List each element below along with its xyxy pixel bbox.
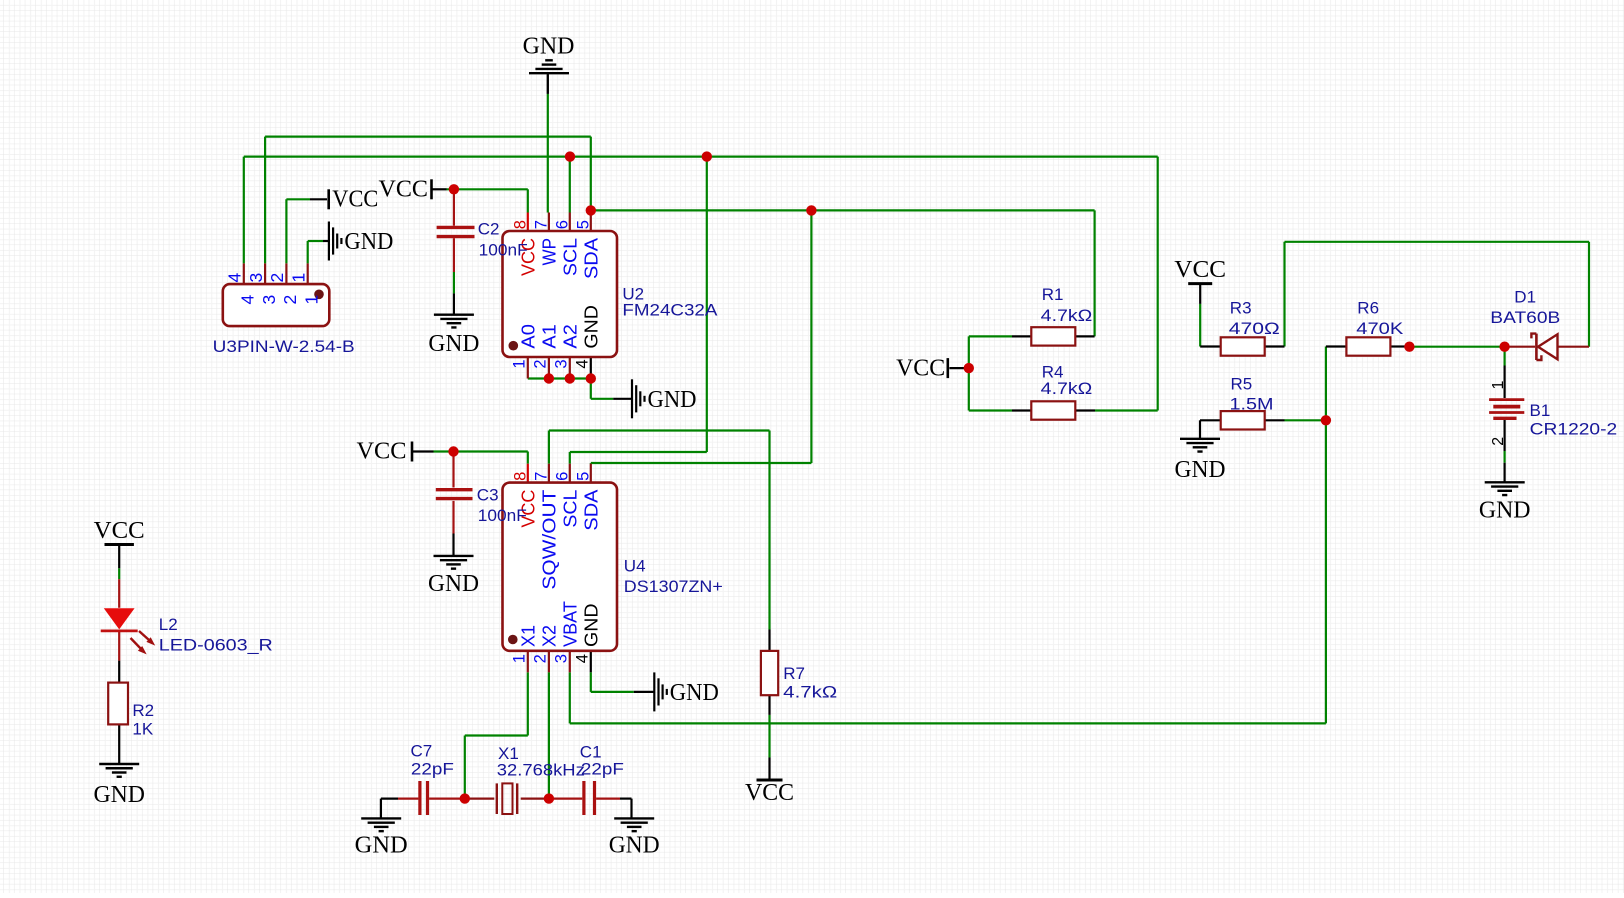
svg-text:X1: X1 bbox=[518, 625, 538, 647]
svg-text:C3: C3 bbox=[477, 486, 499, 505]
svg-text:6: 6 bbox=[553, 472, 571, 481]
svg-text:VCC: VCC bbox=[357, 439, 407, 465]
svg-text:VCC: VCC bbox=[332, 187, 378, 213]
svg-text:7: 7 bbox=[532, 472, 550, 481]
svg-text:1: 1 bbox=[511, 654, 529, 663]
svg-text:2: 2 bbox=[280, 295, 300, 305]
svg-text:R1: R1 bbox=[1042, 285, 1064, 304]
svg-text:VBAT: VBAT bbox=[560, 601, 580, 647]
svg-text:2: 2 bbox=[532, 654, 550, 663]
svg-text:3: 3 bbox=[553, 654, 571, 663]
svg-text:5: 5 bbox=[574, 472, 592, 481]
svg-text:GND: GND bbox=[648, 387, 697, 413]
svg-text:100nF: 100nF bbox=[479, 241, 528, 260]
svg-text:C7: C7 bbox=[411, 742, 433, 761]
svg-text:4: 4 bbox=[574, 654, 592, 663]
svg-text:GND: GND bbox=[581, 305, 601, 349]
svg-text:SDA: SDA bbox=[581, 238, 601, 279]
svg-text:3: 3 bbox=[246, 273, 266, 283]
svg-text:DS1307ZN+: DS1307ZN+ bbox=[624, 577, 723, 596]
svg-text:GND: GND bbox=[428, 571, 479, 597]
svg-text:4: 4 bbox=[238, 295, 258, 305]
svg-text:22pF: 22pF bbox=[581, 760, 624, 779]
svg-text:8: 8 bbox=[511, 220, 529, 229]
svg-text:6: 6 bbox=[553, 220, 571, 229]
svg-text:GND: GND bbox=[670, 680, 719, 706]
svg-text:4.7kΩ: 4.7kΩ bbox=[783, 683, 837, 702]
svg-text:L2: L2 bbox=[159, 615, 178, 634]
svg-text:GND: GND bbox=[523, 34, 575, 60]
svg-text:3: 3 bbox=[553, 359, 571, 368]
svg-text:470Ω: 470Ω bbox=[1229, 319, 1280, 338]
svg-text:R2: R2 bbox=[132, 701, 154, 720]
svg-text:GND: GND bbox=[609, 833, 660, 859]
svg-text:470K: 470K bbox=[1356, 319, 1404, 338]
svg-text:1: 1 bbox=[1490, 381, 1507, 390]
svg-text:U3PIN-W-2.54-B: U3PIN-W-2.54-B bbox=[213, 337, 355, 356]
svg-text:VCC: VCC bbox=[94, 518, 145, 544]
svg-text:4.7kΩ: 4.7kΩ bbox=[1041, 306, 1093, 325]
svg-text:WP: WP bbox=[539, 238, 559, 266]
svg-text:22pF: 22pF bbox=[411, 760, 454, 779]
svg-text:B1: B1 bbox=[1530, 401, 1551, 420]
svg-text:GND: GND bbox=[581, 604, 601, 648]
svg-text:U4: U4 bbox=[624, 556, 646, 575]
svg-text:A0: A0 bbox=[518, 324, 538, 349]
svg-text:4.7kΩ: 4.7kΩ bbox=[1041, 379, 1093, 398]
svg-text:GND: GND bbox=[1479, 498, 1531, 524]
svg-text:SDA: SDA bbox=[581, 490, 601, 531]
svg-text:R3: R3 bbox=[1230, 299, 1252, 318]
svg-text:32.768kHz: 32.768kHz bbox=[497, 761, 585, 780]
svg-text:CR1220-2: CR1220-2 bbox=[1530, 420, 1618, 439]
svg-text:2: 2 bbox=[267, 273, 287, 283]
svg-text:1: 1 bbox=[511, 359, 529, 368]
svg-text:SQW/OUT: SQW/OUT bbox=[539, 490, 559, 590]
svg-text:VCC: VCC bbox=[379, 177, 429, 203]
svg-text:GND: GND bbox=[93, 782, 145, 808]
svg-text:SCL: SCL bbox=[560, 238, 580, 276]
svg-text:R6: R6 bbox=[1357, 299, 1379, 318]
svg-text:5: 5 bbox=[574, 220, 592, 229]
svg-text:2: 2 bbox=[1490, 437, 1507, 446]
svg-text:SCL: SCL bbox=[560, 490, 580, 528]
svg-text:VCC: VCC bbox=[896, 355, 945, 381]
svg-text:4: 4 bbox=[225, 273, 245, 283]
svg-text:3: 3 bbox=[259, 295, 279, 305]
svg-text:100nF: 100nF bbox=[478, 506, 527, 525]
svg-text:FM24C32A: FM24C32A bbox=[622, 301, 718, 320]
svg-text:2: 2 bbox=[532, 359, 550, 368]
svg-text:GND: GND bbox=[344, 229, 393, 255]
svg-text:1: 1 bbox=[301, 295, 321, 305]
svg-text:LED-0603_R: LED-0603_R bbox=[159, 636, 273, 655]
svg-text:VCC: VCC bbox=[1174, 257, 1226, 283]
svg-text:R7: R7 bbox=[783, 664, 805, 683]
svg-text:8: 8 bbox=[511, 472, 529, 481]
svg-text:7: 7 bbox=[532, 220, 550, 229]
svg-text:X2: X2 bbox=[539, 625, 559, 647]
svg-text:GND: GND bbox=[355, 833, 408, 859]
svg-text:1: 1 bbox=[288, 273, 308, 283]
svg-text:1K: 1K bbox=[132, 720, 153, 739]
svg-text:A1: A1 bbox=[539, 324, 559, 349]
svg-text:A2: A2 bbox=[560, 324, 580, 349]
svg-text:C2: C2 bbox=[478, 220, 500, 239]
svg-text:D1: D1 bbox=[1514, 288, 1536, 307]
svg-text:VCC: VCC bbox=[745, 780, 794, 806]
svg-text:GND: GND bbox=[428, 331, 479, 357]
svg-text:4: 4 bbox=[574, 359, 592, 368]
svg-text:BAT60B: BAT60B bbox=[1490, 308, 1560, 327]
svg-text:1.5M: 1.5M bbox=[1230, 395, 1274, 414]
svg-text:GND: GND bbox=[1175, 457, 1226, 483]
svg-text:R5: R5 bbox=[1231, 375, 1253, 394]
